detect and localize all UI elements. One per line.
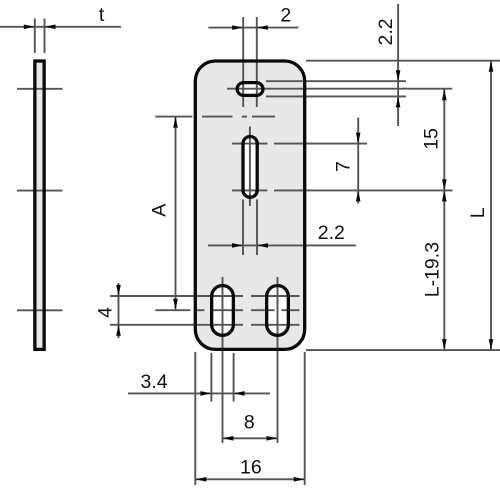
svg-text:3.4: 3.4 (141, 371, 168, 393)
bottom right slot fill (267, 286, 289, 336)
dimension 8 (223, 412, 278, 441)
front view plate fill (195, 61, 304, 349)
svg-text:7: 7 (333, 161, 355, 172)
plate bottom edge extension line (306, 349, 500, 351)
middle slot upper arc-center line (232, 143, 367, 145)
dimension 2.2 middle (208, 200, 356, 256)
front view plate outline (195, 61, 304, 349)
bottom left slot fill (212, 286, 234, 336)
svg-text:2.2: 2.2 (318, 222, 345, 244)
middle slot fill (243, 137, 257, 198)
bottom slots lower arc-center line (110, 324, 300, 326)
fold reference centerline (155, 116, 275, 118)
dimension L (467, 61, 493, 350)
bottom slots upper arc-center line (110, 295, 300, 297)
plate left edge extension line (194, 352, 196, 485)
side view tick bottom (17, 309, 63, 311)
dimension 4 (95, 283, 121, 338)
top slot extension line upper (266, 80, 406, 82)
bottom right slot vertical centerline (277, 277, 279, 443)
top slot extension line lower (266, 95, 406, 97)
plate top edge extension line (306, 60, 500, 62)
bottom right slot outline (267, 286, 289, 336)
middle slot vertical centerline (249, 127, 251, 207)
svg-text:2.2: 2.2 (375, 18, 397, 45)
dimension 16 (195, 457, 304, 482)
middle slot outline (243, 137, 257, 198)
svg-text:L-19.3: L-19.3 (422, 242, 444, 297)
top slot fill (237, 83, 263, 96)
dimension 2.2 top right (375, 4, 400, 126)
dimension 15 (421, 89, 447, 190)
bottom slots horizontal centerline (155, 309, 299, 311)
dimension A (148, 117, 177, 310)
plate right edge extension line (304, 352, 306, 485)
bottom left slot outline (212, 286, 234, 336)
side view plate fill (35, 61, 44, 349)
dimension 7 (333, 118, 361, 204)
dimension L-19.3 (422, 190, 447, 350)
side view plate outline (35, 61, 44, 349)
side view tick middle (17, 190, 63, 192)
middle slot lower arc-center line (232, 189, 453, 191)
dimension 3.4 (128, 353, 270, 402)
svg-text:15: 15 (421, 128, 443, 150)
dimension t (0, 4, 121, 53)
dimension 2 (208, 5, 298, 107)
top slot outline (237, 83, 263, 96)
side view tick top (17, 88, 63, 90)
svg-text:2: 2 (280, 5, 291, 27)
svg-text:A: A (148, 204, 170, 217)
top slot horizontal centerline (227, 88, 452, 90)
svg-text:t: t (99, 4, 105, 26)
bottom left slot vertical centerline (222, 277, 224, 443)
svg-text:4: 4 (95, 307, 117, 318)
svg-text:8: 8 (244, 412, 255, 434)
svg-text:L: L (467, 207, 489, 218)
svg-text:16: 16 (240, 457, 262, 479)
